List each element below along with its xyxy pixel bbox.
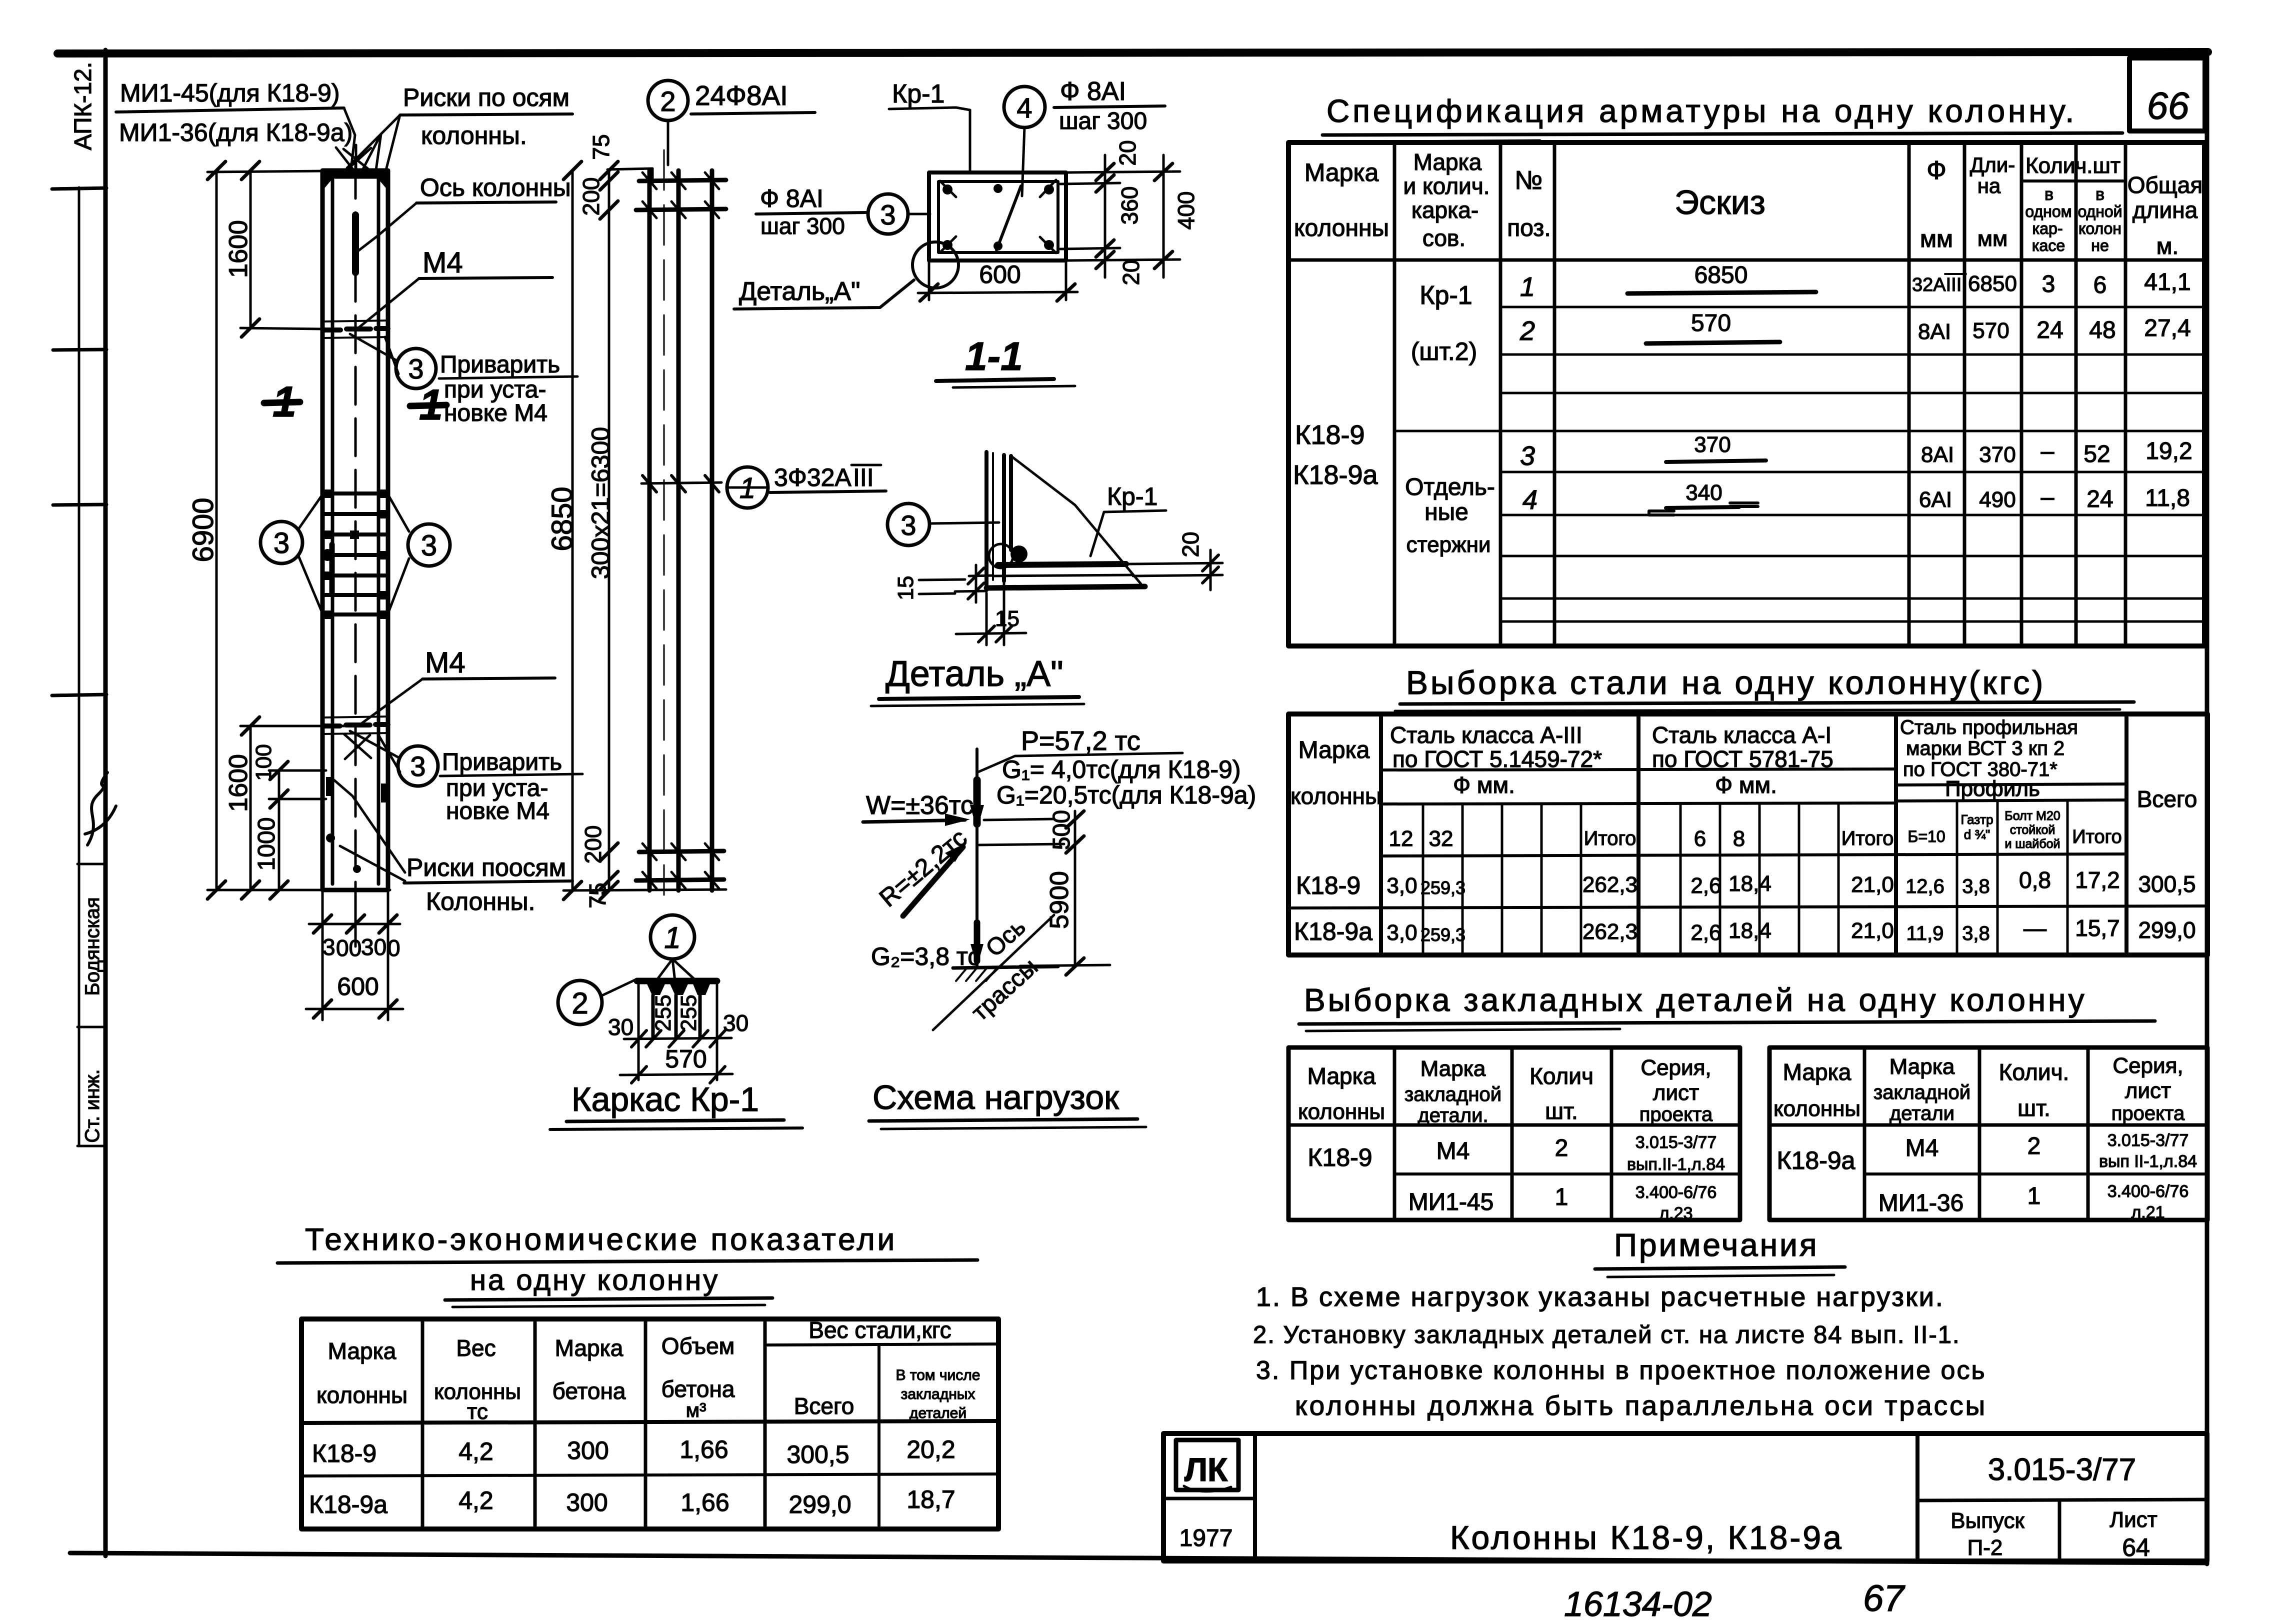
section line with circled 1 [641, 482, 721, 483]
svg-text:Колич.шт: Колич.шт [2025, 153, 2120, 178]
svg-text:2: 2 [660, 85, 675, 117]
svg-text:1: 1 [1520, 272, 1535, 302]
svg-text:30: 30 [608, 1014, 633, 1040]
diagonal tie [996, 186, 1021, 250]
svg-text:кар-: кар- [2032, 219, 2063, 237]
svg-text:370: 370 [1694, 432, 1730, 457]
upper M4 embed dashes [324, 328, 388, 330]
svg-text:колонны должна быть параллельн: колонны должна быть параллельна оси трас… [1295, 1390, 1987, 1421]
bottom extensions [322, 890, 388, 1020]
svg-text:G₁=20,5тс(для К18-9а): G₁=20,5тс(для К18-9а) [996, 781, 1256, 809]
outer [1288, 714, 2207, 955]
LOAD-SCHEME [863, 726, 1256, 1129]
top corner weld fills [322, 170, 339, 190]
svg-text:18,4: 18,4 [1728, 918, 1771, 943]
svg-text:400: 400 [1173, 191, 1199, 230]
svg-text:Марка: Марка [1298, 737, 1370, 763]
svg-text:Примечания: Примечания [1614, 1227, 1819, 1263]
svg-text:К18-9: К18-9 [312, 1439, 376, 1467]
svg-text:1: 1 [664, 921, 680, 954]
svg-text:41,1: 41,1 [2144, 269, 2190, 295]
axis heavy risk mark bottom [329, 544, 335, 592]
svg-text:ЛК: ЛК [1184, 1451, 1228, 1488]
svg-text:Общая: Общая [2127, 172, 2202, 198]
svg-text:Эскиз: Эскиз [1674, 183, 1765, 221]
bottom dim 600 [929, 262, 1066, 300]
circled 3 [887, 503, 929, 545]
svg-text:6850: 6850 [546, 486, 578, 551]
svg-text:21,0: 21,0 [1851, 918, 1894, 943]
svg-text:мм: мм [1920, 226, 1953, 252]
dim 500 [977, 819, 1064, 845]
cage bar 1 [647, 170, 652, 890]
svg-text:1: 1 [1555, 1184, 1568, 1210]
svg-text:Каркас Кр-1: Каркас Кр-1 [571, 1080, 759, 1118]
lower risk X mark [344, 734, 371, 759]
tie tick slashes [642, 172, 719, 888]
svg-text:Сталь класса А-I: Сталь класса А-I [1652, 722, 1831, 748]
svg-text:Марка: Марка [555, 1335, 623, 1361]
svg-text:Спецификация арматуры на одну: Спецификация арматуры на одну колонну. [1326, 93, 2077, 129]
svg-text:одной: одной [2077, 202, 2122, 220]
svg-text:4,2: 4,2 [458, 1486, 493, 1514]
svg-text:2,6: 2,6 [1690, 920, 1721, 945]
svg-text:детали.: детали. [1417, 1104, 1488, 1126]
svg-text:24: 24 [2036, 317, 2063, 343]
svg-text:Выборка закладных деталей на о: Выборка закладных деталей на одну колонн… [1304, 982, 2086, 1018]
svg-text:3,0: 3,0 [1386, 873, 1417, 898]
section mark 1 left [264, 402, 300, 403]
svg-text:Марка: Марка [1420, 1056, 1486, 1081]
svg-text:3,8: 3,8 [1962, 875, 1990, 897]
svg-text:закладной: закладной [1404, 1083, 1501, 1105]
svg-text:300х21=6300: 300х21=6300 [586, 427, 614, 579]
svg-text:15: 15 [893, 576, 918, 600]
svg-text:Дли-: Дли- [1970, 153, 2015, 176]
svg-text:Ф 8АI: Ф 8АI [1060, 77, 1126, 106]
load arrow P blob [973, 780, 981, 824]
svg-text:3: 3 [410, 750, 425, 782]
svg-text:300: 300 [567, 1436, 608, 1464]
column axis line [975, 749, 978, 967]
TECH-ECON-TABLE [277, 1222, 998, 1529]
svg-text:3. При установке колонны в про: 3. При установке колонны в проектное пол… [1256, 1356, 1986, 1385]
PAGE-NUMBER-66 [2129, 58, 2205, 131]
svg-text:К18-9а: К18-9а [1294, 917, 1372, 945]
svg-text:АПК-12.: АПК-12. [70, 62, 96, 150]
svg-text:вып II-1,л.84: вып II-1,л.84 [2099, 1152, 2197, 1171]
KARKAS-KR1-SECTION [550, 915, 802, 1129]
svg-text:8АI: 8АI [1921, 442, 1954, 467]
svg-text:МИ1-45: МИ1-45 [1408, 1189, 1494, 1215]
svg-text:Ф мм.: Ф мм. [1453, 772, 1515, 798]
svg-text:255: 255 [676, 994, 701, 1031]
circled 1 [650, 915, 694, 959]
svg-text:18,7: 18,7 [906, 1485, 955, 1513]
svg-text:8: 8 [1733, 826, 1745, 851]
svg-text:3,8: 3,8 [1962, 922, 1990, 944]
svg-text:24: 24 [2086, 486, 2113, 512]
circled 3 with label [868, 194, 908, 234]
svg-text:20,2: 20,2 [906, 1435, 955, 1463]
cage axis [663, 150, 665, 895]
svg-text:Марка: Марка [1304, 158, 1379, 186]
svg-text:Марка: Марка [1783, 1059, 1851, 1085]
svg-text:шаг 300: шаг 300 [1059, 108, 1147, 134]
EMBED-TABLE-RIGHT [1769, 1047, 2207, 1222]
major verticals [1381, 714, 2126, 955]
tie end dots [321, 489, 388, 619]
svg-text:1600: 1600 [224, 220, 253, 278]
dim 15 left [955, 575, 993, 591]
svg-text:и шайбой: и шайбой [2004, 837, 2060, 851]
leaders to bar dots [656, 959, 697, 982]
svg-text:3.015-3/77: 3.015-3/77 [1988, 1452, 2136, 1487]
svg-text:19,2: 19,2 [2145, 438, 2192, 464]
svg-text:2: 2 [571, 986, 588, 1020]
svg-text:Ф 8АI: Ф 8АI [760, 184, 823, 212]
svg-text:новке М4: новке М4 [444, 400, 547, 426]
svg-text:300,5: 300,5 [786, 1440, 849, 1468]
svg-text:при уста-: при уста- [444, 376, 546, 403]
svg-text:Схема нагрузок: Схема нагрузок [872, 1078, 1119, 1116]
svg-text:299,0: 299,0 [2138, 917, 2195, 943]
lower blob G2 [974, 922, 980, 961]
svg-text:МИ1-45(для К18-9): МИ1-45(для К18-9) [120, 79, 339, 107]
svg-text:касе: касе [2032, 236, 2065, 254]
svg-text:—: — [2023, 915, 2046, 941]
sub verticals A-I [1680, 804, 1838, 955]
svg-text:Сталь профильная: Сталь профильная [1900, 716, 2078, 738]
svg-text:Марка: Марка [1307, 1063, 1376, 1089]
svg-text:колонны: колонны [1290, 783, 1381, 809]
diag break line [1011, 456, 1141, 584]
lower small embed marks [326, 777, 387, 873]
svg-text:Кр-1: Кр-1 [892, 79, 944, 108]
leaders to column top [336, 108, 355, 170]
svg-text:3: 3 [900, 509, 916, 541]
svg-text:d ¾": d ¾" [1964, 827, 1990, 842]
svg-text:570: 570 [665, 1045, 706, 1073]
svg-text:Объем: Объем [661, 1333, 735, 1359]
NOTES [1253, 1227, 1987, 1421]
header bottom [1288, 258, 2204, 262]
svg-text:490: 490 [1979, 487, 2015, 512]
svg-text:III: III [853, 463, 874, 491]
dim line 1 [624, 1038, 731, 1039]
svg-text:4,2: 4,2 [458, 1437, 493, 1465]
detail A circle [912, 242, 958, 288]
svg-text:поз.: поз. [1507, 215, 1551, 241]
svg-text:Газтр: Газтр [1960, 812, 1993, 827]
svg-text:18,4: 18,4 [1728, 871, 1771, 896]
svg-text:К18-9а: К18-9а [1776, 1146, 1855, 1174]
svg-text:24Ф8АI: 24Ф8АI [695, 80, 788, 111]
svg-text:1000: 1000 [253, 817, 280, 871]
axis of route diagonal [933, 915, 1054, 1030]
svg-text:на: на [1977, 174, 2001, 197]
svg-text:75: 75 [584, 882, 610, 908]
svg-text:Деталь „А": Деталь „А" [885, 654, 1063, 694]
svg-text:6850: 6850 [1968, 271, 2017, 296]
sub verticals profil [1957, 801, 2067, 955]
dim 1600 top [249, 170, 252, 328]
dim 6900 line [215, 170, 218, 890]
kolich sub line [2021, 179, 2125, 182]
svg-text:К18-9: К18-9 [1295, 420, 1365, 450]
circled 3 upper weld note [396, 348, 436, 388]
svg-text:м³: м³ [686, 1399, 706, 1421]
STEEL-TABLE [1288, 664, 2207, 955]
signature [85, 772, 116, 845]
bottom plate [986, 586, 1145, 588]
svg-text:1: 1 [272, 378, 296, 426]
svg-text:Всего: Всего [2137, 786, 2197, 812]
svg-text:и колич.: и колич. [1403, 173, 1490, 199]
svg-text:№: № [1514, 166, 1542, 195]
svg-text:2: 2 [1519, 316, 1535, 346]
svg-text:детали: детали [1889, 1102, 1954, 1124]
label box lines [77, 863, 106, 865]
svg-text:бетона: бетона [552, 1378, 625, 1404]
svg-text:11,8: 11,8 [2145, 485, 2190, 511]
svg-text:М4: М4 [422, 246, 463, 279]
dim 100/1000 [278, 770, 280, 890]
dim 300+300 [309, 923, 400, 925]
svg-text:1-1: 1-1 [965, 334, 1023, 378]
svg-text:P=57,2 тс: P=57,2 тс [1021, 726, 1140, 756]
REINF-CAGE-ELEVATION [546, 80, 886, 908]
header data divider [1381, 854, 2126, 856]
svg-text:3: 3 [880, 199, 895, 230]
svg-text:3.015-3/77: 3.015-3/77 [2107, 1131, 2189, 1150]
svg-text:закладной: закладной [1873, 1081, 1970, 1103]
svg-text:12: 12 [1389, 826, 1413, 851]
svg-text:Колич.: Колич. [1999, 1059, 2069, 1085]
svg-text:Профиль: Профиль [1945, 776, 2040, 801]
svg-text:262,3: 262,3 [1582, 872, 1637, 897]
svg-text:Риски поосям: Риски поосям [406, 853, 566, 881]
axis heavy risk mark top [352, 215, 359, 272]
dim 15 bottom [986, 583, 1004, 645]
svg-text:30: 30 [723, 1010, 748, 1036]
top risk X marks [343, 145, 372, 172]
outer concrete outline [929, 172, 1066, 260]
top border [57, 52, 2208, 53]
svg-text:проекта: проекта [1639, 1103, 1713, 1125]
outer box [1288, 142, 2204, 646]
svg-text:К18-9а: К18-9а [1293, 460, 1378, 490]
svg-text:в: в [2095, 185, 2104, 204]
svg-text:закладных: закладных [901, 1386, 975, 1402]
column axis dashed [354, 161, 357, 899]
right border [2205, 52, 2209, 1564]
svg-text:в: в [2044, 185, 2053, 204]
svg-text:П-2: П-2 [1967, 1535, 2003, 1560]
verticals [638, 984, 717, 1080]
svg-text:Колич: Колич [1529, 1063, 1593, 1089]
HAND-NUMBERS [1564, 1577, 1905, 1623]
svg-text:15,7: 15,7 [2075, 915, 2120, 941]
svg-text:500: 500 [1048, 810, 1075, 850]
svg-text:2: 2 [2027, 1133, 2041, 1159]
svg-text:шт.: шт. [1545, 1098, 1578, 1124]
svg-text:М4: М4 [1436, 1138, 1470, 1164]
svg-text:255: 255 [651, 994, 675, 1031]
LEFT-COLUMN-ELEVATION [187, 145, 450, 1020]
svg-text:3: 3 [322, 934, 335, 960]
svg-text:1600: 1600 [224, 754, 253, 812]
LEFT-MARGIN [52, 62, 116, 1146]
svg-text:Марка: Марка [1413, 149, 1482, 175]
stirrup [938, 181, 1058, 252]
svg-text:00: 00 [336, 935, 361, 961]
extension lines [207, 171, 390, 890]
svg-text:Лист: Лист [2109, 1507, 2157, 1532]
M4 plate vertical [1004, 455, 1011, 581]
svg-text:600: 600 [979, 260, 1020, 288]
svg-text:32: 32 [1429, 826, 1453, 851]
svg-text:340: 340 [1685, 480, 1722, 505]
SPEC-TABLE [1288, 93, 2204, 646]
svg-text:3Ф32А: 3Ф32А [774, 463, 851, 491]
bottom ties [636, 851, 724, 880]
circled 3 lower weld note [398, 746, 438, 786]
cage bar 2 [676, 170, 681, 890]
svg-text:одном: одном [2025, 202, 2071, 220]
svg-text:Марка: Марка [328, 1338, 396, 1364]
svg-text:М4: М4 [425, 646, 465, 679]
svg-text:колонны: колонны [1298, 1099, 1385, 1124]
svg-text:64: 64 [2122, 1533, 2150, 1561]
svg-text:лист: лист [2125, 1078, 2171, 1103]
dim line 2 [620, 1074, 732, 1075]
dim 6850 [571, 170, 574, 890]
svg-text:колон: колон [2078, 219, 2121, 237]
svg-text:карка-: карка- [1411, 197, 1478, 223]
svg-text:стержни: стержни [1406, 532, 1491, 557]
svg-text:МИ1-36: МИ1-36 [1878, 1190, 1964, 1216]
svg-text:не: не [2091, 236, 2108, 254]
svg-text:11,9: 11,9 [1906, 922, 1944, 944]
rebar end hooks [647, 984, 710, 995]
lower M4 embed dashes [325, 724, 388, 726]
margin ticks [52, 188, 106, 189]
leader diamond to weld zone [298, 494, 409, 613]
svg-text:3: 3 [273, 527, 289, 559]
svg-text:Кр-1: Кр-1 [1419, 281, 1472, 310]
svg-text:(шт.2): (шт.2) [1411, 337, 1477, 365]
svg-text:К18-9: К18-9 [1307, 1143, 1372, 1171]
svg-text:Колонны.: Колонны. [426, 887, 535, 915]
class header underlines [1381, 769, 2126, 785]
svg-text:1,66: 1,66 [679, 1435, 728, 1463]
svg-text:вып.II-1,л.84: вып.II-1,л.84 [1627, 1155, 1725, 1174]
svg-text:52: 52 [2083, 441, 2110, 467]
svg-text:Болт М20: Болт М20 [2004, 809, 2060, 823]
svg-text:К18-9а: К18-9а [309, 1490, 387, 1518]
EMBED-TABLE-LEFT [1288, 1047, 1740, 1223]
svg-text:Ф: Ф [1926, 156, 1946, 185]
svg-text:Серия,: Серия, [1640, 1055, 1711, 1080]
svg-text:1. В схеме нагрузок указаны ра: 1. В схеме нагрузок указаны расчетные на… [1256, 1282, 1944, 1312]
svg-text:Вес стали,кгс: Вес стали,кгс [808, 1317, 951, 1343]
svg-text:МИ1-36(для К18-9а): МИ1-36(для К18-9а) [119, 118, 352, 146]
logo LK [1176, 1440, 1238, 1490]
svg-text:3: 3 [408, 353, 423, 384]
svg-text:марки ВСТ 3 кп 2: марки ВСТ 3 кп 2 [1906, 737, 2064, 759]
svg-text:6: 6 [1694, 826, 1706, 851]
circled 2 left [558, 980, 602, 1024]
svg-text:259,3: 259,3 [1420, 877, 1465, 898]
svg-text:100: 100 [251, 744, 276, 780]
svg-text:48: 48 [2089, 317, 2115, 343]
svg-text:–: – [2041, 438, 2054, 464]
svg-text:деталей: деталей [909, 1405, 966, 1421]
svg-text:по ГОСТ 5781-75: по ГОСТ 5781-75 [1652, 746, 1833, 772]
svg-text:Колонны К18-9, К18-9а: Колонны К18-9, К18-9а [1450, 1519, 1843, 1556]
svg-text:1: 1 [2027, 1183, 2041, 1209]
DETAIL-A [871, 452, 1222, 706]
svg-text:299,0: 299,0 [788, 1490, 851, 1518]
circled 2 top [648, 80, 688, 120]
dim 300x21 [608, 170, 610, 890]
svg-text:л.21: л.21 [2131, 1203, 2164, 1222]
svg-text:Риски по осям: Риски по осям [403, 83, 569, 111]
svg-text:1,66: 1,66 [680, 1488, 729, 1516]
svg-text:21,0: 21,0 [1851, 872, 1894, 897]
bottom ext [563, 889, 726, 890]
svg-text:3,0: 3,0 [1386, 920, 1417, 945]
svg-text:66: 66 [2147, 85, 2189, 127]
svg-text:Марка: Марка [1889, 1054, 1955, 1079]
svg-text:16134-02: 16134-02 [1564, 1584, 1712, 1623]
svg-text:колонны: колонны [1294, 215, 1389, 241]
svg-text:Б=10: Б=10 [1907, 827, 1945, 845]
svg-text:W=±36тс: W=±36тс [866, 791, 973, 820]
Kr1 bar horizontal [998, 564, 1126, 565]
TITLE-BLOCK [1163, 1433, 2207, 1561]
svg-text:М4: М4 [1905, 1135, 1939, 1161]
cage bar 3 [710, 170, 714, 890]
svg-text:200: 200 [578, 177, 604, 216]
svg-text:17,2: 17,2 [2075, 867, 2120, 893]
svg-text:2: 2 [1555, 1135, 1568, 1161]
svg-text:300,5: 300,5 [2138, 871, 2195, 897]
svg-text:Итого: Итого [1841, 827, 1894, 849]
svg-text:шаг 300: шаг 300 [760, 213, 845, 239]
svg-text:360: 360 [1116, 186, 1142, 225]
svg-text:Технико-экономические показате: Технико-экономические показатели [305, 1222, 897, 1257]
svg-text:262,3: 262,3 [1582, 919, 1637, 944]
svg-text:259,3: 259,3 [1420, 924, 1465, 945]
svg-text:Серия,: Серия, [2112, 1053, 2183, 1078]
svg-text:шт.: шт. [2017, 1095, 2050, 1121]
sub verticals A-III [1423, 804, 1581, 955]
svg-text:570: 570 [1972, 318, 2009, 343]
svg-text:Ст. инж.: Ст. инж. [81, 1069, 103, 1142]
top bar KR1 [637, 978, 717, 984]
svg-text:длина: длина [2132, 197, 2198, 223]
svg-text:3: 3 [421, 529, 437, 562]
svg-text:20: 20 [1114, 140, 1140, 165]
F mm row underline [1381, 800, 2126, 804]
svg-text:4: 4 [1522, 485, 1537, 515]
svg-text:6АI: 6АI [1919, 487, 1952, 512]
svg-text:новке М4: новке М4 [446, 798, 549, 824]
svg-text:G₁= 4,0тс(для К18-9): G₁= 4,0тс(для К18-9) [1002, 755, 1241, 783]
svg-text:Сталь класса А-III: Сталь класса А-III [1390, 722, 1582, 748]
